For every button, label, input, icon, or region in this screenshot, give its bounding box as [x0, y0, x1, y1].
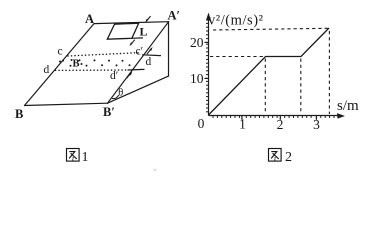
x axis minor ticks [213, 116, 334, 120]
svg-text:2: 2 [285, 150, 292, 165]
arrow near d' [127, 72, 132, 78]
wire loop bottom edge extension [132, 37, 143, 39]
wire top edge A-A' [94, 22, 169, 24]
wire hypotenuse edge B'-A' [108, 22, 169, 104]
wire cc' extension across edge [143, 54, 161, 57]
svg-text:B: B [15, 107, 23, 121]
caption 图1 [67, 149, 80, 162]
arrow near c' [147, 47, 152, 54]
svg-text:B: B [73, 59, 80, 70]
svg-text:L: L [140, 25, 148, 39]
boundary cc' dotted [68, 53, 141, 56]
field dots B region [59, 59, 131, 67]
svg-text:2: 2 [277, 117, 284, 132]
wire dd' extension across edge [128, 68, 144, 71]
wire left edge A-B [25, 24, 95, 106]
caption 图2 [269, 149, 282, 162]
svg-text:v²/(m/s)²: v²/(m/s)² [208, 13, 264, 29]
wire base edge of side face [108, 76, 169, 103]
svg-text:20: 20 [190, 35, 204, 50]
svg-text:3: 3 [313, 117, 320, 132]
y axis arrowhead [206, 13, 211, 21]
svg-text:θ: θ [118, 88, 123, 99]
arrow near top edge [146, 16, 151, 22]
wire bottom edge B-B' [25, 103, 108, 105]
svg-text:d: d [146, 56, 152, 68]
dashed vertical at 1.5 [264, 59, 266, 115]
wire right vertical edge A' down [168, 22, 170, 76]
curve v^2(s) [209, 28, 330, 115]
svg-text:B′: B′ [103, 105, 115, 119]
svg-text:d: d [44, 64, 50, 76]
dashed vertical at 2.5 [300, 59, 302, 115]
svg-text:0: 0 [198, 116, 205, 131]
x axis arrowhead [337, 113, 345, 119]
y axis minor ticks [205, 23, 209, 111]
svg-text:10: 10 [190, 71, 204, 86]
svg-text:A′: A′ [168, 9, 181, 23]
dashed horizontal top [213, 28, 328, 30]
svg-text:s/m: s/m [337, 98, 359, 114]
svg-text:d′: d′ [110, 70, 118, 82]
svg-text:1: 1 [239, 117, 246, 132]
svg-text:A: A [85, 12, 94, 26]
svg-text:c: c [58, 46, 63, 58]
dashed vertical at end [328, 31, 330, 114]
svg-text:c′: c′ [136, 46, 144, 58]
boundary dd' dotted [56, 69, 128, 71]
conducting loop L [107, 23, 138, 39]
y axis [209, 19, 340, 116]
dashed horizontal at 15 [210, 56, 264, 58]
angle theta arc [112, 95, 119, 99]
svg-text:1: 1 [82, 150, 89, 165]
arrow near loop bottom [130, 40, 135, 46]
